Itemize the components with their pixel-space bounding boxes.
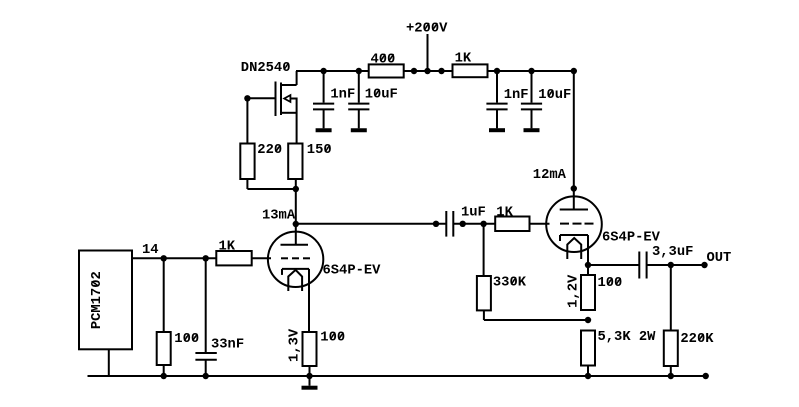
tube V1 6S4P-EV	[268, 224, 323, 332]
junction rail-B	[438, 68, 444, 74]
wire 330K bottom to cathode node	[483, 310, 485, 320]
wire tap to 33nF	[205, 258, 207, 352]
wire PCM1702 ground lead	[108, 349, 110, 376]
junction 33nF bus	[203, 373, 209, 379]
wire pin14 to 1K	[132, 257, 216, 259]
wire top rail	[296, 70, 574, 72]
capacitor 33nF	[195, 353, 216, 376]
resistor 400	[369, 52, 404, 77]
svg-text:100: 100	[174, 332, 199, 347]
resistor 150	[288, 143, 331, 179]
wire to plate node	[295, 189, 297, 224]
label 1,3V	[288, 328, 303, 362]
svg-text:1uF: 1uF	[461, 205, 486, 220]
resistor 220	[240, 143, 282, 179]
wire gate lead	[247, 97, 275, 99]
junction 33nF tap	[203, 255, 209, 261]
svg-text:1K: 1K	[455, 52, 472, 67]
svg-text:330K: 330K	[493, 276, 527, 291]
wire 1K to grid V1	[252, 257, 271, 259]
wire 3,3uF to OUT	[647, 264, 705, 266]
wire plate node to 1uF	[296, 223, 447, 225]
resistor 100 (V1 cathode)	[303, 331, 346, 366]
wire rail to plate V2	[573, 71, 575, 210]
wire tap to 100	[163, 258, 165, 332]
capacitor 10uF (right)	[521, 71, 542, 128]
label 10uF (right)	[538, 88, 571, 103]
svg-text:150: 150	[307, 143, 332, 158]
resistor 330K	[477, 276, 527, 311]
wire 5,3K to bus	[587, 366, 589, 377]
svg-text:1nF: 1nF	[504, 88, 529, 103]
svg-text:400: 400	[371, 52, 396, 67]
wire 220K to bus	[670, 366, 672, 376]
wire 150 bottom	[295, 179, 297, 189]
capacitor 1nF (right)	[486, 71, 507, 128]
wire 100 to bus	[163, 365, 165, 376]
capacitor 1nF (left)	[313, 71, 334, 128]
junction 5,3K bus	[585, 373, 591, 379]
resistor 5,3K 2W	[581, 330, 656, 366]
resistor 220K	[664, 331, 714, 367]
svg-text:6S4P-EV: 6S4P-EV	[602, 230, 661, 245]
svg-text:12mA: 12mA	[533, 168, 567, 183]
node OUT	[701, 251, 731, 268]
junction 330K tap	[480, 221, 486, 227]
junction rail cap 1nF (left)	[320, 68, 326, 74]
wire 220 bottom to node	[246, 179, 248, 189]
svg-text:1K: 1K	[496, 205, 513, 220]
junction gate node	[244, 95, 250, 101]
junction rail cap 10uF (left)	[356, 68, 362, 74]
label 1,2V	[567, 274, 582, 308]
ground (under left 1nF)	[316, 128, 332, 132]
svg-text:PCM1702: PCM1702	[90, 271, 105, 329]
wire 1K to grid V2	[530, 223, 550, 225]
ground (under right 1nF)	[489, 128, 505, 132]
ground (under left 10uF)	[351, 128, 367, 132]
capacitor 10uF (left)	[348, 71, 369, 128]
wire ground bus	[88, 375, 706, 377]
wire 1uF to 1K	[453, 223, 495, 225]
junction rail +200V	[424, 68, 430, 74]
junction rail cap 1nF (right)	[494, 68, 500, 74]
wire tap to 330K	[483, 224, 485, 276]
ground (bus)	[309, 376, 311, 386]
svg-text:1,2V: 1,2V	[567, 274, 582, 308]
svg-text:5,3K 2W: 5,3K 2W	[598, 330, 657, 345]
svg-text:10uF: 10uF	[365, 88, 398, 103]
ground (under right 10uF)	[524, 128, 540, 132]
junction on coupling wire	[433, 221, 439, 227]
svg-text:100: 100	[320, 331, 345, 346]
junction 330K return	[585, 317, 591, 323]
svg-text:1K: 1K	[219, 240, 236, 255]
resistor 1K top	[453, 52, 488, 78]
resistor 1K mid	[495, 205, 529, 231]
junction cathode bus	[306, 373, 312, 379]
svg-text:13mA: 13mA	[262, 209, 296, 224]
junction after 1uF	[460, 221, 466, 227]
svg-text:33nF: 33nF	[211, 338, 244, 353]
junction 100 bus	[161, 373, 167, 379]
svg-text:DN2540: DN2540	[241, 61, 291, 76]
resistor 100 (V2 cathode)	[581, 275, 622, 310]
capacitor 1uF	[446, 211, 453, 237]
wire 100 to bus	[309, 366, 311, 376]
svg-text:14: 14	[142, 243, 159, 258]
junction rail-A	[411, 68, 417, 74]
junction rail plate V2	[571, 68, 577, 74]
junction plate lead mark	[571, 185, 577, 191]
junction 100 tap	[161, 255, 167, 261]
wire tap to 220K	[670, 265, 672, 331]
svg-text:220K: 220K	[680, 332, 714, 347]
resistor 1K grid	[216, 240, 251, 266]
node +200V	[406, 21, 448, 71]
junction 220K tap	[668, 262, 674, 268]
svg-text:OUT: OUT	[707, 251, 732, 266]
junction bus end	[703, 373, 709, 379]
junction below resistors	[293, 186, 299, 192]
svg-text:100: 100	[598, 276, 623, 291]
junction rail cap 10uF (right)	[528, 68, 534, 74]
svg-text:10uF: 10uF	[538, 88, 571, 103]
tube V2 6S4P-EV	[546, 196, 602, 275]
label 10uF (left)	[365, 88, 398, 103]
junction 220K bus	[668, 373, 674, 379]
junction plate node V1	[293, 221, 299, 227]
junction cathode node V2	[585, 262, 591, 268]
wire cathode to 3,3uF	[588, 264, 639, 266]
label DN2540	[241, 61, 291, 76]
svg-text:6S4P-EV: 6S4P-EV	[323, 264, 382, 279]
svg-text:1,3V: 1,3V	[288, 328, 303, 362]
wire gate to R220	[246, 98, 248, 143]
svg-text:3,3uF: 3,3uF	[652, 245, 693, 260]
capacitor 3,3uF	[639, 252, 646, 279]
svg-text:220: 220	[257, 143, 282, 158]
IC PCM1702	[79, 251, 132, 350]
MOSFET DN2540	[276, 71, 297, 144]
svg-text:1nF: 1nF	[330, 88, 355, 103]
resistor 100 (DAC)	[157, 332, 199, 365]
